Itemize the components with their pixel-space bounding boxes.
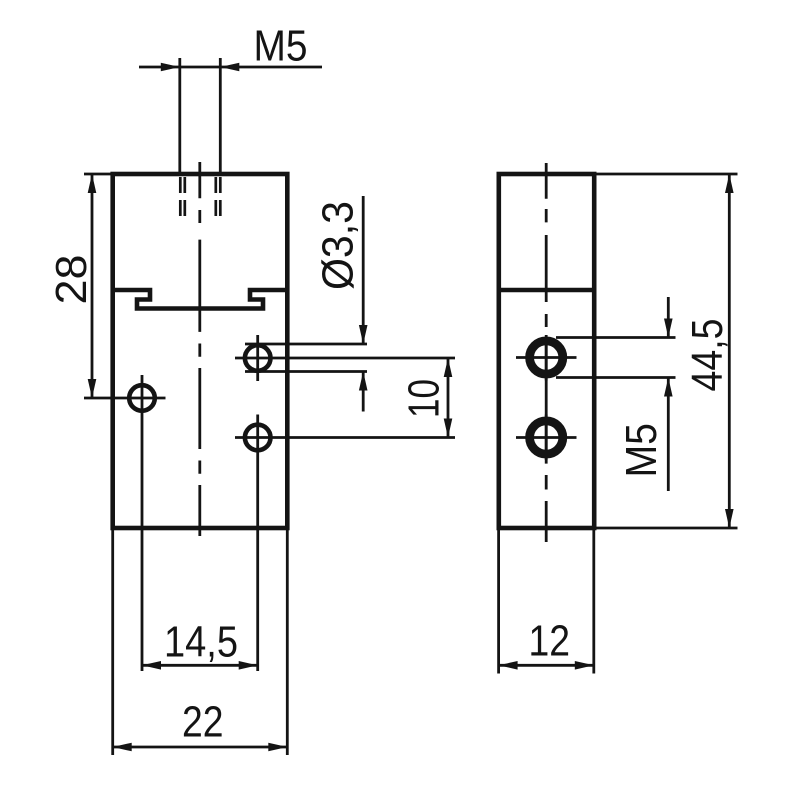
arrowhead 44,5 top [725, 174, 734, 193]
svg-text:M5: M5 [254, 23, 308, 71]
left view body outline [113, 174, 288, 528]
arrowhead 14,5 right [239, 661, 258, 670]
svg-text:28: 28 [48, 255, 96, 305]
44,5 dimension extension lines [596, 173, 738, 176]
22 dimension line [113, 746, 288, 749]
right view vertical centerline [545, 163, 548, 542]
hole A (left, Ø3.3) circle [129, 385, 155, 411]
svg-text:22: 22 [182, 699, 224, 747]
28 dimension line [91, 174, 94, 398]
hole A vertical crosshair / extension to 14,5 dim [141, 375, 144, 671]
arrowhead M5-right lower [664, 378, 673, 397]
svg-text:12: 12 [529, 617, 571, 665]
M5 thread hidden lines (dashed) below top edge [179, 177, 182, 216]
hole B (upper right, Ø3.3) circle [245, 345, 271, 371]
left view T-slot groove profile [111, 290, 290, 309]
arrowhead Ø3,3 lower [359, 372, 368, 391]
svg-text:10: 10 [401, 379, 449, 418]
12 dimension line [499, 664, 594, 667]
arrowhead 22 right [268, 743, 287, 752]
10 dimension line [447, 358, 450, 438]
arrowhead 44,5 bottom [725, 509, 734, 528]
hole A horizontal crosshair [84, 397, 166, 400]
hole E (lower, M5) thread circle [530, 421, 563, 454]
hole E vertical crosshair [545, 415, 548, 461]
M5 right-view tangent extension lines [556, 336, 676, 339]
arrowhead 10 top [444, 358, 453, 377]
right view body outline [499, 174, 594, 528]
hole E horizontal crosshair [516, 436, 577, 439]
hole C vertical crosshair / extension to 14,5 dim [256, 415, 259, 672]
28 dimension top extension line [84, 173, 120, 176]
arrowhead M5-right upper [664, 319, 673, 338]
M5 top dimension extension lines [178, 58, 181, 172]
arrowhead 12 left [499, 661, 518, 670]
arrowhead 28 bottom [88, 379, 97, 398]
left view vertical centerline [198, 162, 201, 536]
hole C horizontal crosshair / extension for 10 dim [235, 436, 455, 439]
14,5 dimension line [142, 664, 258, 667]
Ø3,3 dimension line segments [362, 196, 365, 343]
arrowhead 22 left [113, 743, 132, 752]
arrowhead M5-top right [220, 63, 239, 72]
svg-text:44,5: 44,5 [684, 319, 732, 392]
M5 top dimension line [139, 66, 322, 69]
hole D (upper, M5) thread circle [530, 341, 563, 374]
hole B horizontal crosshair / extension for 10 dim [235, 357, 455, 360]
hole D horizontal crosshair [516, 356, 577, 359]
hole C (lower right, Ø3.3) circle [245, 425, 271, 451]
svg-text:M5: M5 [618, 423, 666, 478]
44,5 dimension line [728, 174, 731, 528]
arrowhead Ø3,3 upper [359, 325, 368, 344]
hole B vertical crosshair [256, 335, 259, 381]
right view groove depth line [497, 288, 597, 293]
arrowhead 28 top [88, 174, 97, 193]
arrowhead 12 right [575, 661, 594, 670]
arrowhead 10 bottom [444, 419, 453, 438]
arrowhead M5-top left [161, 63, 180, 72]
svg-text:14,5: 14,5 [164, 619, 238, 667]
12 dimension extension lines [497, 530, 500, 674]
M5 right-view dimension arrow tails [667, 297, 670, 337]
arrowhead 14,5 left [142, 661, 161, 670]
Ø3,3 leader tangent lines [245, 343, 367, 346]
hole D vertical crosshair [545, 335, 548, 381]
22 dimension extension lines [111, 530, 114, 755]
svg-text:Ø3,3: Ø3,3 [315, 201, 363, 290]
